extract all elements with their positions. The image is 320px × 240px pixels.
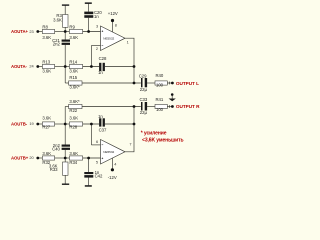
svg-text:7: 7 (129, 142, 131, 147)
svg-text:AOUTA+: AOUTA+ (11, 29, 28, 34)
svg-text:1n: 1n (98, 114, 103, 119)
svg-text:22µ: 22µ (140, 110, 148, 115)
svg-text:OUTPUT L: OUTPUT L (176, 81, 199, 86)
svg-text:OUTPUT R: OUTPUT R (176, 104, 200, 109)
svg-text:-12V: -12V (108, 175, 117, 180)
svg-text:2: 2 (96, 46, 98, 51)
svg-text:3.6K: 3.6K (42, 116, 51, 121)
svg-text:3.6K: 3.6K (69, 116, 78, 121)
svg-text:R22: R22 (69, 108, 77, 113)
svg-text:AOUTB-: AOUTB- (11, 122, 28, 127)
svg-text:* усиление: * усиление (141, 131, 167, 137)
svg-text:19: 19 (29, 121, 33, 126)
svg-text:<3,6K уменьшить: <3,6K уменьшить (142, 137, 183, 143)
svg-text:+12V: +12V (108, 11, 118, 16)
svg-text:R33: R33 (50, 167, 58, 172)
svg-text:22µ: 22µ (140, 87, 148, 92)
svg-text:100: 100 (156, 107, 164, 112)
svg-text:3.6K: 3.6K (53, 18, 62, 23)
svg-text:C29: C29 (139, 74, 147, 79)
svg-text:3.6K: 3.6K (42, 151, 51, 156)
svg-text:3.6K: 3.6K (42, 68, 51, 73)
svg-text:C33: C33 (140, 97, 148, 102)
svg-text:3.6K: 3.6K (69, 68, 78, 73)
svg-text:C37: C37 (99, 127, 107, 132)
svg-text:3.6K: 3.6K (69, 35, 78, 40)
svg-text:R40: R40 (156, 73, 164, 78)
svg-text:NE5532: NE5532 (103, 36, 114, 40)
svg-text:3: 3 (96, 24, 98, 29)
svg-text:3.6K: 3.6K (42, 35, 51, 40)
svg-text:100: 100 (156, 83, 164, 88)
svg-text:R8: R8 (42, 25, 48, 30)
svg-text:1n: 1n (94, 14, 99, 19)
svg-text:C28: C28 (99, 56, 107, 61)
svg-text:3.6K*: 3.6K* (69, 85, 80, 90)
svg-text:R34: R34 (69, 160, 77, 165)
svg-text:2n2: 2n2 (53, 42, 61, 47)
svg-text:R27: R27 (42, 125, 50, 130)
svg-text:5: 5 (96, 159, 98, 164)
svg-text:6: 6 (96, 139, 98, 144)
svg-text:8: 8 (115, 23, 117, 28)
svg-text:R28: R28 (69, 125, 77, 130)
svg-text:C42: C42 (95, 173, 103, 178)
svg-text:NE5532: NE5532 (103, 150, 114, 154)
svg-text:23: 23 (29, 29, 33, 34)
svg-text:3.6K*: 3.6K* (69, 99, 80, 104)
svg-text:R9: R9 (69, 25, 75, 30)
svg-text:1: 1 (127, 40, 129, 45)
svg-text:1n: 1n (98, 70, 103, 75)
svg-text:R15: R15 (69, 75, 77, 80)
svg-text:R41: R41 (156, 97, 164, 102)
svg-text:C40: C40 (52, 147, 60, 152)
svg-text:AOUTB+: AOUTB+ (11, 156, 29, 161)
svg-text:3.6K: 3.6K (69, 151, 78, 156)
svg-text:AOUTA-: AOUTA- (11, 64, 27, 69)
svg-text:R13: R13 (42, 59, 50, 64)
svg-text:R14: R14 (69, 59, 77, 64)
